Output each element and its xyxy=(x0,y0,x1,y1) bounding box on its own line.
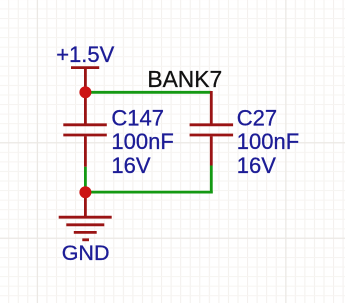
junction bottom xyxy=(79,186,91,198)
ground stem xyxy=(84,192,87,217)
svg-text:BANK7: BANK7 xyxy=(147,66,222,92)
svg-text:16V: 16V xyxy=(111,153,150,178)
ground bar 1 xyxy=(59,216,112,219)
ground bar 3 xyxy=(74,231,97,234)
capacitor C147 bottom lead xyxy=(84,136,87,167)
ground bar 4 xyxy=(82,238,89,241)
wire bottom horizontal xyxy=(85,191,212,194)
ground bar 2 xyxy=(66,223,104,226)
capacitor C27 top lead xyxy=(210,91,213,124)
svg-text:C147: C147 xyxy=(111,106,164,131)
svg-text:100nF: 100nF xyxy=(237,129,299,154)
wire left vertical green segment xyxy=(84,167,87,192)
capacitor C147 top lead xyxy=(84,92,87,124)
capacitor C147 top plate xyxy=(63,123,107,126)
wire right vertical green segment xyxy=(210,166,213,194)
capacitor C27 top plate xyxy=(190,123,234,126)
junction top xyxy=(79,86,91,98)
svg-text:C27: C27 xyxy=(237,106,277,131)
power symbol +1.5V stem xyxy=(84,68,87,92)
power symbol +1.5V bar xyxy=(71,66,99,69)
capacitor C147 bottom plate xyxy=(63,134,107,137)
svg-text:+1.5V: +1.5V xyxy=(56,42,114,67)
svg-text:16V: 16V xyxy=(237,153,276,178)
capacitor C27 bottom plate xyxy=(190,134,234,137)
svg-text:100nF: 100nF xyxy=(111,129,173,154)
wire BANK7 top horizontal xyxy=(85,91,211,94)
svg-text:GND: GND xyxy=(62,241,110,265)
capacitor C27 bottom lead xyxy=(210,136,213,165)
